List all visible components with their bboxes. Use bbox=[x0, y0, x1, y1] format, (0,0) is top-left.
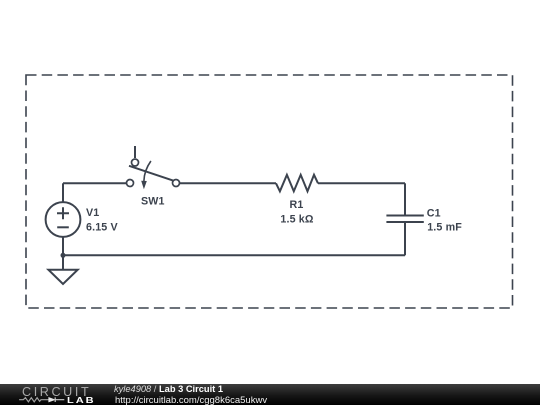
svg-text:C1: C1 bbox=[427, 208, 441, 220]
wire SW1 right terminal to R1 bbox=[180, 182, 276, 184]
junction node at V1 bottom bbox=[61, 253, 66, 258]
logo diode symbol bbox=[49, 398, 55, 402]
wire bottom segment bbox=[63, 254, 405, 256]
capacitor C1 bottom plate bbox=[386, 221, 423, 223]
wire V1 bottom lead bbox=[62, 237, 64, 255]
wire top-left segment to SW1 left terminal bbox=[63, 182, 126, 184]
switch SW1 right terminal circle bbox=[173, 180, 180, 187]
svg-text:R1: R1 bbox=[290, 199, 304, 211]
wire R1 to top-right corner bbox=[318, 182, 405, 184]
ground symbol bbox=[48, 270, 77, 284]
dashed selection border bbox=[26, 75, 513, 308]
svg-text:SW1: SW1 bbox=[141, 196, 165, 208]
logo resistor zigzag bbox=[19, 398, 48, 402]
wire V1 top lead bbox=[62, 183, 64, 202]
switch SW1 left terminal circle bbox=[127, 180, 134, 187]
logo diode cathode bar and lead bbox=[55, 398, 64, 403]
wire ground stub bbox=[62, 255, 64, 269]
capacitor C1 top plate bbox=[386, 215, 423, 217]
switch SW1 top stub bbox=[134, 146, 136, 158]
wire C1 bottom plate down bbox=[404, 222, 406, 255]
switch SW1 top terminal circle bbox=[132, 159, 139, 166]
svg-text:1.5 mF: 1.5 mF bbox=[427, 222, 462, 234]
resistor R1 zigzag bbox=[276, 175, 318, 192]
CircuitLab logo LAB text bbox=[67, 396, 96, 405]
svg-text:1.5 kΩ: 1.5 kΩ bbox=[280, 214, 314, 226]
svg-text:V1: V1 bbox=[86, 207, 99, 219]
switch SW1 action arrow arc bbox=[144, 161, 151, 181]
switch SW1 lever bbox=[129, 166, 174, 181]
CircuitLab logo resistor+diode glyph bbox=[0, 384, 100, 405]
wire down to C1 top plate bbox=[404, 183, 406, 215]
footer line 2: url text bbox=[115, 396, 267, 406]
V1 plus sign bbox=[57, 207, 69, 219]
switch SW1 action arrowhead bbox=[141, 181, 147, 189]
voltage source V1 circle bbox=[46, 202, 81, 237]
footer bar bbox=[0, 384, 540, 405]
svg-text:6.15 V: 6.15 V bbox=[86, 222, 119, 234]
V1 minus sign bbox=[57, 226, 69, 228]
CircuitLab logo wordmark CIRCUIT bbox=[22, 386, 91, 398]
footer line 1: user and circuit title bbox=[114, 385, 223, 395]
